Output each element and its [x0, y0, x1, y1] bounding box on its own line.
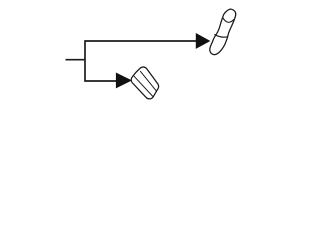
chromosome bottom: band line 1	[140, 71, 157, 91]
arrowhead top (filled)	[196, 34, 209, 48]
arrowhead bottom (filled)	[116, 73, 130, 87]
chromosome top: bent capsule outline	[210, 9, 236, 54]
chromosome bottom: band line 2	[134, 76, 153, 96]
wire: vertical branch	[84, 40, 86, 82]
chromosome top: band 2	[214, 34, 228, 37]
wire: top horizontal	[85, 40, 197, 42]
chromosome top: band 1	[223, 18, 234, 22]
wire: bottom horizontal	[85, 80, 119, 82]
chromosome bottom: rounded parallelogram	[131, 67, 158, 99]
wire: left stub	[66, 59, 86, 61]
